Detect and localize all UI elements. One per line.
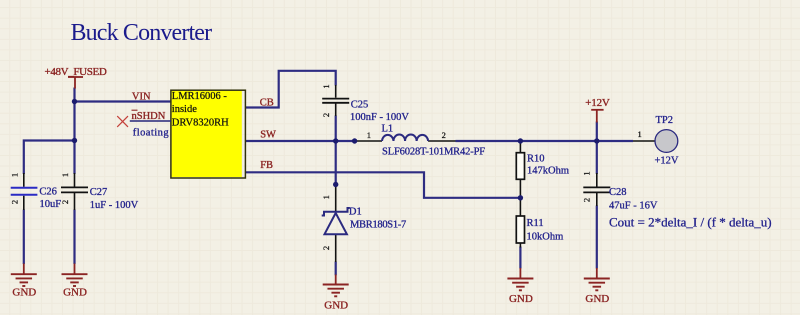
svg-text:1: 1 [321, 195, 331, 199]
svg-text:2: 2 [582, 198, 592, 202]
svg-text:L1: L1 [382, 124, 394, 135]
svg-text:10kOhm: 10kOhm [527, 232, 564, 243]
svg-text:C25: C25 [351, 100, 369, 111]
svg-text:1: 1 [638, 129, 642, 139]
svg-text:TP2: TP2 [656, 115, 674, 126]
svg-text:GND: GND [509, 293, 533, 305]
svg-text:1: 1 [321, 84, 331, 88]
svg-text:LMR16006 -: LMR16006 - [172, 91, 228, 102]
svg-text:C27: C27 [90, 187, 108, 198]
svg-text:SLF6028T-101MR42-PF: SLF6028T-101MR42-PF [382, 147, 485, 158]
svg-text:R11: R11 [527, 218, 544, 229]
svg-text:C28: C28 [609, 187, 627, 198]
svg-text:1: 1 [10, 173, 20, 177]
svg-text:+48V_FUSED: +48V_FUSED [45, 66, 107, 78]
svg-text:DRV8320RH: DRV8320RH [172, 117, 229, 128]
svg-text:1: 1 [60, 173, 70, 177]
svg-text:10uF: 10uF [40, 199, 62, 210]
svg-text:+12V: +12V [655, 156, 679, 167]
svg-text:VIN: VIN [132, 92, 151, 103]
svg-text:nSHDN: nSHDN [132, 111, 166, 122]
svg-text:2: 2 [321, 113, 331, 117]
svg-text:inside: inside [172, 104, 197, 115]
svg-text:CB: CB [260, 98, 274, 109]
svg-text:1: 1 [582, 171, 592, 175]
svg-text:FB: FB [260, 160, 273, 171]
svg-text:+12V: +12V [585, 97, 610, 109]
svg-text:R10: R10 [527, 154, 545, 165]
svg-text:47uF - 16V: 47uF - 16V [609, 201, 658, 212]
svg-text:100nF - 100V: 100nF - 100V [350, 112, 409, 123]
svg-text:floating: floating [133, 128, 170, 139]
svg-text:2: 2 [10, 200, 20, 204]
svg-text:D1: D1 [349, 207, 362, 218]
svg-text:C26: C26 [39, 186, 57, 197]
svg-text:2: 2 [442, 130, 446, 140]
svg-text:SW: SW [260, 130, 276, 141]
svg-text:Cout = 2*delta_I / (f * delta_: Cout = 2*delta_I / (f * delta_u) [609, 214, 772, 229]
svg-text:GND: GND [324, 300, 348, 312]
svg-text:1uF - 100V: 1uF - 100V [90, 200, 139, 211]
svg-text:2: 2 [321, 246, 331, 250]
svg-text:147kOhm: 147kOhm [527, 166, 569, 177]
svg-text:2: 2 [60, 200, 70, 204]
svg-text:MBR180S1-7: MBR180S1-7 [350, 220, 406, 231]
svg-text:GND: GND [63, 287, 87, 299]
svg-text:Buck Converter: Buck Converter [71, 20, 213, 46]
svg-text:GND: GND [12, 287, 36, 299]
svg-text:GND: GND [585, 293, 609, 305]
svg-text:1: 1 [367, 130, 371, 140]
